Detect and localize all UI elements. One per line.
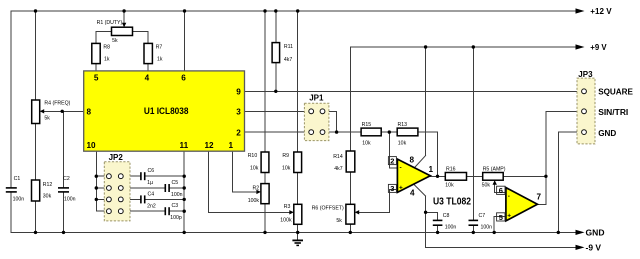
junction GND / R12: [34, 231, 37, 234]
ground symbol below R3: [292, 240, 303, 245]
power -9V: [576, 242, 602, 252]
junction +12V / pin 6: [183, 9, 186, 12]
svg-text:1: 1: [429, 165, 434, 174]
power GND arrow: [576, 227, 605, 237]
capacitor C3 100p: [165, 203, 182, 221]
junction +12V / R10: [263, 9, 266, 12]
wire R4-R12 column: [35, 11, 37, 232]
power +9V: [576, 42, 607, 52]
resistor R13 10k: [397, 122, 418, 146]
svg-text:100n: 100n: [445, 224, 457, 230]
svg-text:1µ: 1µ: [147, 180, 153, 186]
junction pin 8 / C2: [61, 110, 64, 113]
wire pin 3 to JP1: [245, 110, 312, 112]
junction pin 11 / C3: [183, 210, 186, 213]
wire R8 to pin 5: [95, 64, 97, 71]
svg-text:SIN/TRI: SIN/TRI: [598, 107, 628, 117]
junction +9V / C7: [472, 45, 475, 48]
junction pin 11 / C6: [183, 175, 186, 178]
svg-text:12: 12: [205, 141, 215, 150]
svg-text:10k: 10k: [445, 183, 454, 189]
wire R1 wiper from +12V: [123, 11, 125, 24]
wire pin 8 diagonal stub: [415, 155, 426, 167]
connector JP1: [304, 94, 329, 141]
svg-text:C5: C5: [172, 180, 179, 186]
wire pin 9 to JP3 SQUARE: [245, 90, 585, 92]
junction GND / pin 11: [183, 231, 186, 234]
capacitor C7 100n: [469, 213, 493, 230]
svg-text:8: 8: [410, 156, 415, 165]
svg-text:100k: 100k: [248, 198, 260, 204]
connector JP3: [577, 70, 633, 144]
wire JP1 right pins join: [323, 111, 362, 132]
resistor R11 4k7: [272, 43, 293, 64]
svg-text:4k7: 4k7: [334, 166, 342, 172]
capacitor C5 100n: [165, 180, 182, 198]
wire -9V branch to C8: [426, 212, 438, 219]
junction GND / op-amp pin 5: [493, 231, 496, 234]
wire R9-R3 column: [297, 11, 299, 240]
wire R10-R2 column: [264, 11, 266, 232]
svg-text:R16: R16: [446, 166, 456, 172]
junction pin 10 / JP2 row 3: [95, 198, 98, 201]
svg-text:5: 5: [499, 213, 503, 222]
junction +9V / op-amp pin 8: [424, 45, 427, 48]
wire R5 to node: [503, 175, 546, 177]
junction pin 10 / JP2 row 2: [95, 186, 98, 189]
svg-text:10k: 10k: [398, 140, 407, 146]
svg-text:10k: 10k: [282, 166, 291, 172]
wire pin 12 to R3 wiper: [209, 151, 290, 212]
wire -9V rail: [426, 246, 576, 248]
svg-text:R15: R15: [362, 122, 372, 128]
svg-text:R14: R14: [333, 154, 343, 160]
power +12V: [576, 6, 612, 16]
wire R11 column: [275, 11, 277, 91]
wire junction to op-amp pin 2: [389, 132, 397, 168]
wire R6 pot to GND: [349, 224, 351, 232]
svg-text:100n: 100n: [13, 197, 25, 203]
svg-text:SQUARE: SQUARE: [598, 87, 633, 97]
wire SIN/TRI node to JP3: [546, 111, 584, 176]
svg-text:R2: R2: [253, 186, 260, 192]
svg-text:5k: 5k: [112, 38, 118, 44]
svg-text:-: -: [508, 193, 510, 200]
capacitor C2 100n: [58, 176, 76, 203]
wire R1 left lead to R8: [96, 31, 111, 43]
svg-text:R1 (DUTY): R1 (DUTY): [97, 20, 123, 26]
junction pin 10 / JP2 row 1: [95, 175, 98, 178]
svg-text:3: 3: [390, 184, 394, 193]
resistor R15 10k: [361, 122, 381, 146]
svg-text:1: 1: [229, 141, 234, 150]
wire GND rail: [11, 231, 576, 233]
svg-text:+9 V: +9 V: [590, 42, 607, 52]
junction pin 11 / C5: [183, 186, 186, 189]
svg-text:R7: R7: [156, 45, 163, 51]
wire pin 2 to JP1: [245, 131, 312, 133]
junction GND / C8: [436, 231, 439, 234]
wire R14 to R6 pot: [349, 172, 351, 204]
resistor R9 10k: [282, 152, 302, 173]
junction R11 / pin 9 wire: [274, 90, 277, 93]
wire JP2 row4 to C3: [123, 210, 184, 212]
svg-text:R6 (OFFSET): R6 (OFFSET): [312, 205, 344, 211]
junction JP1 right pins: [335, 130, 338, 133]
svg-text:C1: C1: [14, 176, 21, 182]
junction SIN/TRI node: [544, 175, 547, 178]
svg-text:30k: 30k: [43, 194, 52, 200]
svg-text:1k: 1k: [104, 57, 110, 63]
svg-text:8: 8: [87, 108, 92, 117]
svg-text:R9: R9: [282, 153, 289, 159]
svg-text:10k: 10k: [250, 166, 259, 172]
potentiometer R1 (DUTY) 5k: [97, 20, 133, 44]
svg-text:GND: GND: [586, 227, 605, 237]
IC U1 ICL8038: [84, 71, 245, 151]
svg-text:2n2: 2n2: [147, 203, 156, 209]
svg-text:R8: R8: [103, 45, 110, 51]
wire JP3 GND to rail: [558, 132, 584, 232]
wire pin 10 to JP2: [96, 151, 106, 211]
junction +12V / R4 column: [34, 9, 37, 12]
wire C2 column: [63, 111, 65, 232]
svg-text:C4: C4: [148, 191, 155, 197]
wire pin 11 to GND: [183, 151, 185, 232]
junction op-amp output node: [436, 175, 439, 178]
resistor R7 1k: [144, 43, 163, 63]
svg-text:9: 9: [236, 88, 241, 97]
svg-text:-9 V: -9 V: [586, 242, 602, 252]
wire op-amp output to R16: [430, 175, 445, 177]
junction GND / R3: [296, 231, 299, 234]
junction GND / R2: [263, 231, 266, 234]
potentiometer R6 (OFFSET) 5k: [312, 204, 360, 224]
junction GND / C7: [472, 231, 475, 234]
svg-text:-: -: [400, 165, 402, 172]
wire R13 to feedback corner: [418, 132, 438, 176]
capacitor C8 100n: [433, 213, 457, 230]
svg-text:R10: R10: [248, 153, 258, 159]
svg-text:4: 4: [410, 188, 415, 197]
wire R1 right lead to R7: [133, 31, 149, 43]
svg-text:50k: 50k: [482, 183, 491, 189]
op-amp U3 TL082 B: [497, 186, 542, 222]
wire C8 to GND: [437, 226, 439, 232]
svg-text:U3 TL082: U3 TL082: [433, 197, 471, 208]
svg-text:4: 4: [145, 74, 150, 83]
resistor R12 30k: [32, 180, 53, 201]
junction GND / C2: [62, 231, 65, 234]
capacitor C6 1u: [141, 168, 154, 186]
svg-text:100n: 100n: [481, 224, 493, 230]
wire R6 wiper to op-amp pin 3: [358, 190, 397, 213]
svg-text:R5 (AMP): R5 (AMP): [483, 166, 506, 172]
wire R7 to pin 4: [147, 64, 149, 71]
wire op-amp pin 8 to +9V: [425, 47, 427, 156]
svg-text:+12 V: +12 V: [590, 6, 612, 16]
svg-text:C2: C2: [63, 176, 70, 182]
svg-text:R4 (FREQ): R4 (FREQ): [44, 100, 70, 106]
svg-text:5k: 5k: [336, 218, 342, 224]
svg-text:C7: C7: [479, 213, 486, 219]
wire op-amp pin 5 to GND: [494, 217, 506, 233]
potentiometer R2 100k: [248, 184, 269, 205]
potentiometer R5 (AMP) 50k: [482, 166, 506, 188]
svg-text:R12: R12: [43, 182, 53, 188]
svg-text:C6: C6: [148, 168, 155, 174]
svg-text:5k: 5k: [44, 116, 50, 122]
svg-text:10: 10: [87, 141, 97, 150]
svg-text:R11: R11: [284, 44, 293, 50]
wire +9V to R14: [349, 47, 351, 151]
svg-text:100k: 100k: [280, 217, 292, 223]
svg-text:+: +: [507, 212, 511, 219]
junction GND / JP3: [557, 231, 560, 234]
svg-text:6: 6: [181, 74, 186, 83]
svg-text:3: 3: [236, 108, 241, 117]
potentiometer R4 (FREQ) 5k: [32, 100, 71, 124]
wire pin 4 diagonal stub: [414, 185, 426, 197]
potentiometer R3 100k: [280, 204, 302, 224]
svg-text:10k: 10k: [362, 140, 371, 146]
junction R15/R13/pin 2 node: [388, 130, 391, 133]
svg-text:7: 7: [537, 193, 542, 202]
junction +12V / R1 wiper: [122, 9, 125, 12]
svg-text:R13: R13: [398, 122, 408, 128]
svg-text:2: 2: [390, 156, 394, 165]
junction +12V / R9: [296, 9, 299, 12]
svg-text:JP2: JP2: [109, 153, 124, 162]
wire JP2 row1 to C6: [123, 175, 184, 177]
wire +9V rail: [350, 46, 576, 48]
svg-text:100n: 100n: [171, 192, 183, 198]
junction GND / R6 pot: [349, 231, 352, 234]
wire R16 to R5: [467, 175, 483, 177]
svg-text:2: 2: [236, 128, 241, 137]
svg-text:6: 6: [499, 186, 503, 195]
svg-text:4k7: 4k7: [284, 57, 292, 63]
svg-text:5: 5: [94, 74, 99, 83]
wire R15 to R13 junction: [381, 131, 397, 133]
svg-text:100n: 100n: [64, 197, 76, 203]
wire JP2 row3 to C4: [123, 198, 184, 200]
junction +12V / R11: [274, 9, 277, 12]
resistor R8 1k: [92, 43, 110, 63]
wire JP2 row2 to C5: [123, 187, 184, 189]
wire pin 1 to R2 wiper: [233, 151, 257, 192]
wire R5 wiper to op-amp pin 6: [495, 182, 506, 193]
capacitor C1 100n: [6, 176, 24, 203]
wire +12V to pin 6: [184, 11, 186, 71]
wire C7 column from +9V: [472, 47, 474, 232]
svg-text:100p: 100p: [170, 215, 182, 221]
wire pin 8 to R4 wiper: [44, 110, 84, 112]
svg-text:C8: C8: [443, 213, 450, 219]
junction -9V / C8 branch: [424, 211, 427, 214]
svg-text:11: 11: [180, 141, 189, 150]
svg-text:JP3: JP3: [578, 70, 593, 79]
svg-text:U1 ICL8038: U1 ICL8038: [144, 106, 189, 117]
wire op-amp pin 4 to -9V: [425, 196, 427, 247]
op-amp U3 TL082 A: [388, 156, 471, 208]
wire op-amp pin 7 output: [537, 176, 546, 204]
svg-text:+: +: [399, 184, 403, 191]
svg-text:JP1: JP1: [309, 94, 324, 103]
connector JP2: [104, 153, 130, 221]
junction pin 11 / C4: [183, 198, 186, 201]
capacitor C4 2n2: [141, 191, 156, 209]
resistor R10 10k: [248, 152, 269, 173]
wire +12V rail: [11, 10, 576, 12]
resistor R14 4k7: [333, 151, 355, 172]
svg-text:GND: GND: [598, 128, 616, 138]
wire left border to C1: [10, 11, 12, 232]
svg-text:C3: C3: [172, 203, 179, 209]
svg-text:R3: R3: [284, 204, 291, 210]
svg-text:1k: 1k: [157, 57, 163, 63]
resistor R16 10k: [445, 166, 466, 188]
